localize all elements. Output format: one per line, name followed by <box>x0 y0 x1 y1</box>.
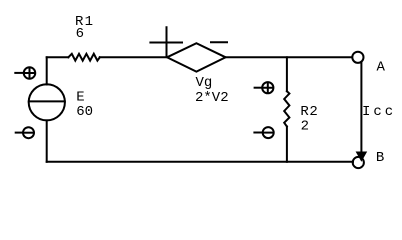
wire right vertical Icc <box>360 62 362 151</box>
svg-text:Vg: Vg <box>196 75 213 91</box>
svg-text:60: 60 <box>76 104 93 120</box>
wire R1 to dependent source <box>100 56 167 58</box>
resistor R2 <box>284 91 289 126</box>
wire left vertical top <box>46 57 48 84</box>
terminal B circle <box>353 157 364 168</box>
wire Vg to node A <box>226 56 352 58</box>
svg-text:Icc: Icc <box>362 104 396 120</box>
minus mark of Vg <box>211 41 227 43</box>
source E circle <box>29 84 65 120</box>
minus polarity circle of R2 <box>254 127 273 138</box>
svg-text:6: 6 <box>76 26 84 42</box>
minus polarity circle of E <box>16 127 34 138</box>
svg-text:B: B <box>376 150 384 166</box>
svg-text:R2: R2 <box>300 104 318 120</box>
wire left vertical bottom <box>46 120 48 161</box>
svg-text:2*V2: 2*V2 <box>195 90 229 106</box>
wire top-left corner to R1 <box>47 56 69 58</box>
wire R2 bottom lead <box>286 127 288 162</box>
Icc arrow head <box>356 152 368 162</box>
source E bar <box>29 100 65 102</box>
plus polarity circle of E <box>15 67 35 79</box>
wire R2 top lead <box>286 57 288 91</box>
dependent source Vg (diamond) <box>167 43 226 71</box>
svg-text:A: A <box>377 59 386 75</box>
terminal A circle <box>352 52 363 63</box>
bottom wire <box>47 161 353 163</box>
resistor R1 <box>68 54 100 61</box>
plus polarity circle of R2 <box>255 82 274 93</box>
plus mark of Vg <box>150 27 182 57</box>
svg-text:2: 2 <box>301 119 309 135</box>
